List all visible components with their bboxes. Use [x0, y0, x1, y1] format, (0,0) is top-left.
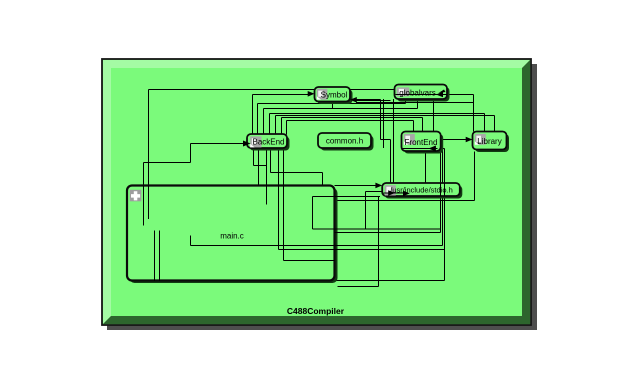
wire hidden left verticals — [155, 231, 160, 282]
arrow inside stdio 1 — [388, 190, 395, 196]
wire symbol-right to library — [356, 102, 474, 104]
wire staircase 4 backend-library — [276, 116, 495, 135]
panel bevel light (top/left) — [103, 60, 530, 324]
svg-text:common.h: common.h — [326, 137, 363, 146]
arrow into Symbol left — [308, 91, 315, 97]
wire backend to main.c step — [271, 148, 323, 186]
arrow nick above globalVars arrow — [439, 90, 446, 94]
svg-text:BackEnd: BackEnd — [252, 138, 284, 147]
wire staircase 1 backend-globalvars — [258, 99, 406, 135]
wire staircase 3 backend-library — [270, 114, 485, 135]
wire staircase 2 backend-globalvars — [264, 99, 418, 135]
wire backend bottom loop — [279, 148, 445, 250]
svg-text:Symbol: Symbol — [321, 90, 348, 99]
box stdio.h — [382, 183, 462, 199]
wire frontend to main.c hidden — [191, 149, 443, 246]
wire symbol-left outer — [149, 90, 395, 220]
wire symbol-right to stdio straight — [356, 100, 391, 102]
svg-text:C488Compiler: C488Compiler — [287, 306, 345, 316]
wire frontend right arrow loop to main.c — [335, 149, 445, 281]
wires crossing stdio box — [441, 183, 445, 196]
box common.h — [318, 133, 374, 151]
wire symbol bottom stub — [332, 102, 334, 109]
wire symbol-right to stdio step — [350, 100, 391, 184]
wire main.c to frontend column — [335, 232, 441, 234]
wire staircase 6 backend-frontend — [287, 121, 414, 135]
svg-text:Library: Library — [477, 137, 501, 146]
icon and label BackEnd — [250, 136, 284, 147]
wire backend hidden stub — [266, 148, 268, 205]
wire hidden main.c to stdio bottom — [313, 192, 441, 230]
box globalVars — [395, 85, 450, 102]
panel bevel dark (bottom/right) — [103, 60, 530, 324]
wire globalvars arrow to library riser — [448, 95, 474, 132]
wire globalvars column to frontend — [433, 99, 435, 132]
arrow into BackEnd left — [243, 141, 251, 147]
panel shadow — [107, 64, 537, 330]
wire globalvars to stdio — [393, 99, 395, 183]
box BackEnd — [247, 134, 290, 151]
wire crossing FrontEnd to its arrow — [403, 148, 438, 150]
wire backend to main.c step2 — [254, 148, 267, 186]
wire symbol-left from backend column — [253, 95, 310, 135]
wire globalvars dead end — [383, 99, 385, 148]
wire frontend down to stdio — [425, 151, 427, 183]
arrow into stdio top-left — [375, 183, 382, 189]
wire backend bottom loop 2 — [284, 148, 336, 261]
icon plus main.c — [130, 190, 142, 202]
wires drawn over main.c — [144, 148, 445, 281]
wire over main.c v2 — [143, 186, 145, 226]
box Symbol — [315, 87, 353, 104]
arrow into globalVars right — [436, 92, 443, 98]
box main.c — [127, 186, 338, 284]
box Library — [473, 132, 510, 153]
svg-text:globalvars: globalvars — [399, 88, 435, 97]
wire over main.c v1 — [148, 186, 150, 220]
svg-text:/usr/include/stdio.h: /usr/include/stdio.h — [390, 186, 453, 195]
wire stdio tail — [338, 196, 379, 287]
wire backend to library under stdio — [259, 148, 475, 201]
wire staircase 5 backend-frontend — [282, 118, 423, 135]
panel body — [102, 59, 531, 325]
wire crossing globalVars to its arrow — [396, 94, 448, 96]
wire main.c to stdio arrow — [335, 185, 377, 187]
wire backend arrow step — [144, 144, 246, 226]
arrow into FrontEnd right — [428, 146, 436, 152]
arrow into Symbol right — [350, 97, 357, 103]
svg-text:FrontEnd: FrontEnd — [405, 138, 438, 147]
arrow inside stdio 2 — [403, 191, 410, 197]
box FrontEnd — [402, 132, 444, 154]
svg-text:main.c: main.c — [220, 232, 244, 241]
wire frontend-library arrow — [441, 139, 467, 141]
arrow into Library left — [466, 137, 473, 143]
